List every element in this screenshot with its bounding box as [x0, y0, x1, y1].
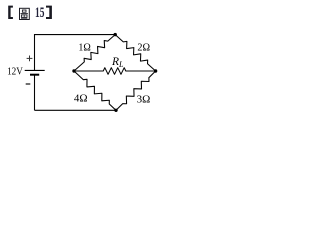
resistor 3ohm (lower-right bridge arm) [116, 71, 156, 110]
svg-text:15: 15 [35, 5, 44, 21]
node left junction dot [72, 69, 75, 72]
figure caption character 圖 [20, 8, 30, 19]
wire: left upper (battery + lead) [34, 34, 36, 70]
node top junction dot [114, 33, 117, 36]
label + polarity [27, 56, 33, 62]
svg-text:2Ω: 2Ω [137, 43, 150, 54]
svg-text:RL: RL [111, 56, 124, 69]
label - polarity [26, 83, 31, 85]
resistor 1ohm (upper-left bridge arm) [74, 35, 115, 71]
figure caption bracket right 】 [46, 6, 52, 19]
node bottom junction dot [114, 109, 117, 112]
resistor 4ohm (lower-left bridge arm) [74, 71, 116, 110]
wire: left lower (battery - lead) [34, 75, 36, 111]
resistor 2ohm (upper-right bridge arm) [115, 35, 155, 71]
svg-text:3Ω: 3Ω [137, 94, 151, 106]
battery V1 positive plate (long) [25, 69, 45, 71]
svg-text:1Ω: 1Ω [78, 43, 90, 54]
svg-text:4Ω: 4Ω [74, 92, 88, 104]
figure caption bracket left 【 [8, 6, 13, 19]
resistor RL (bridge middle) [74, 68, 156, 75]
battery V1 negative plate (short thick) [30, 74, 39, 76]
wire: top from battery to top node [35, 34, 116, 36]
svg-text:12V: 12V [7, 66, 23, 78]
wire: bottom from battery to bottom node [35, 109, 117, 111]
node right junction dot [154, 69, 157, 72]
